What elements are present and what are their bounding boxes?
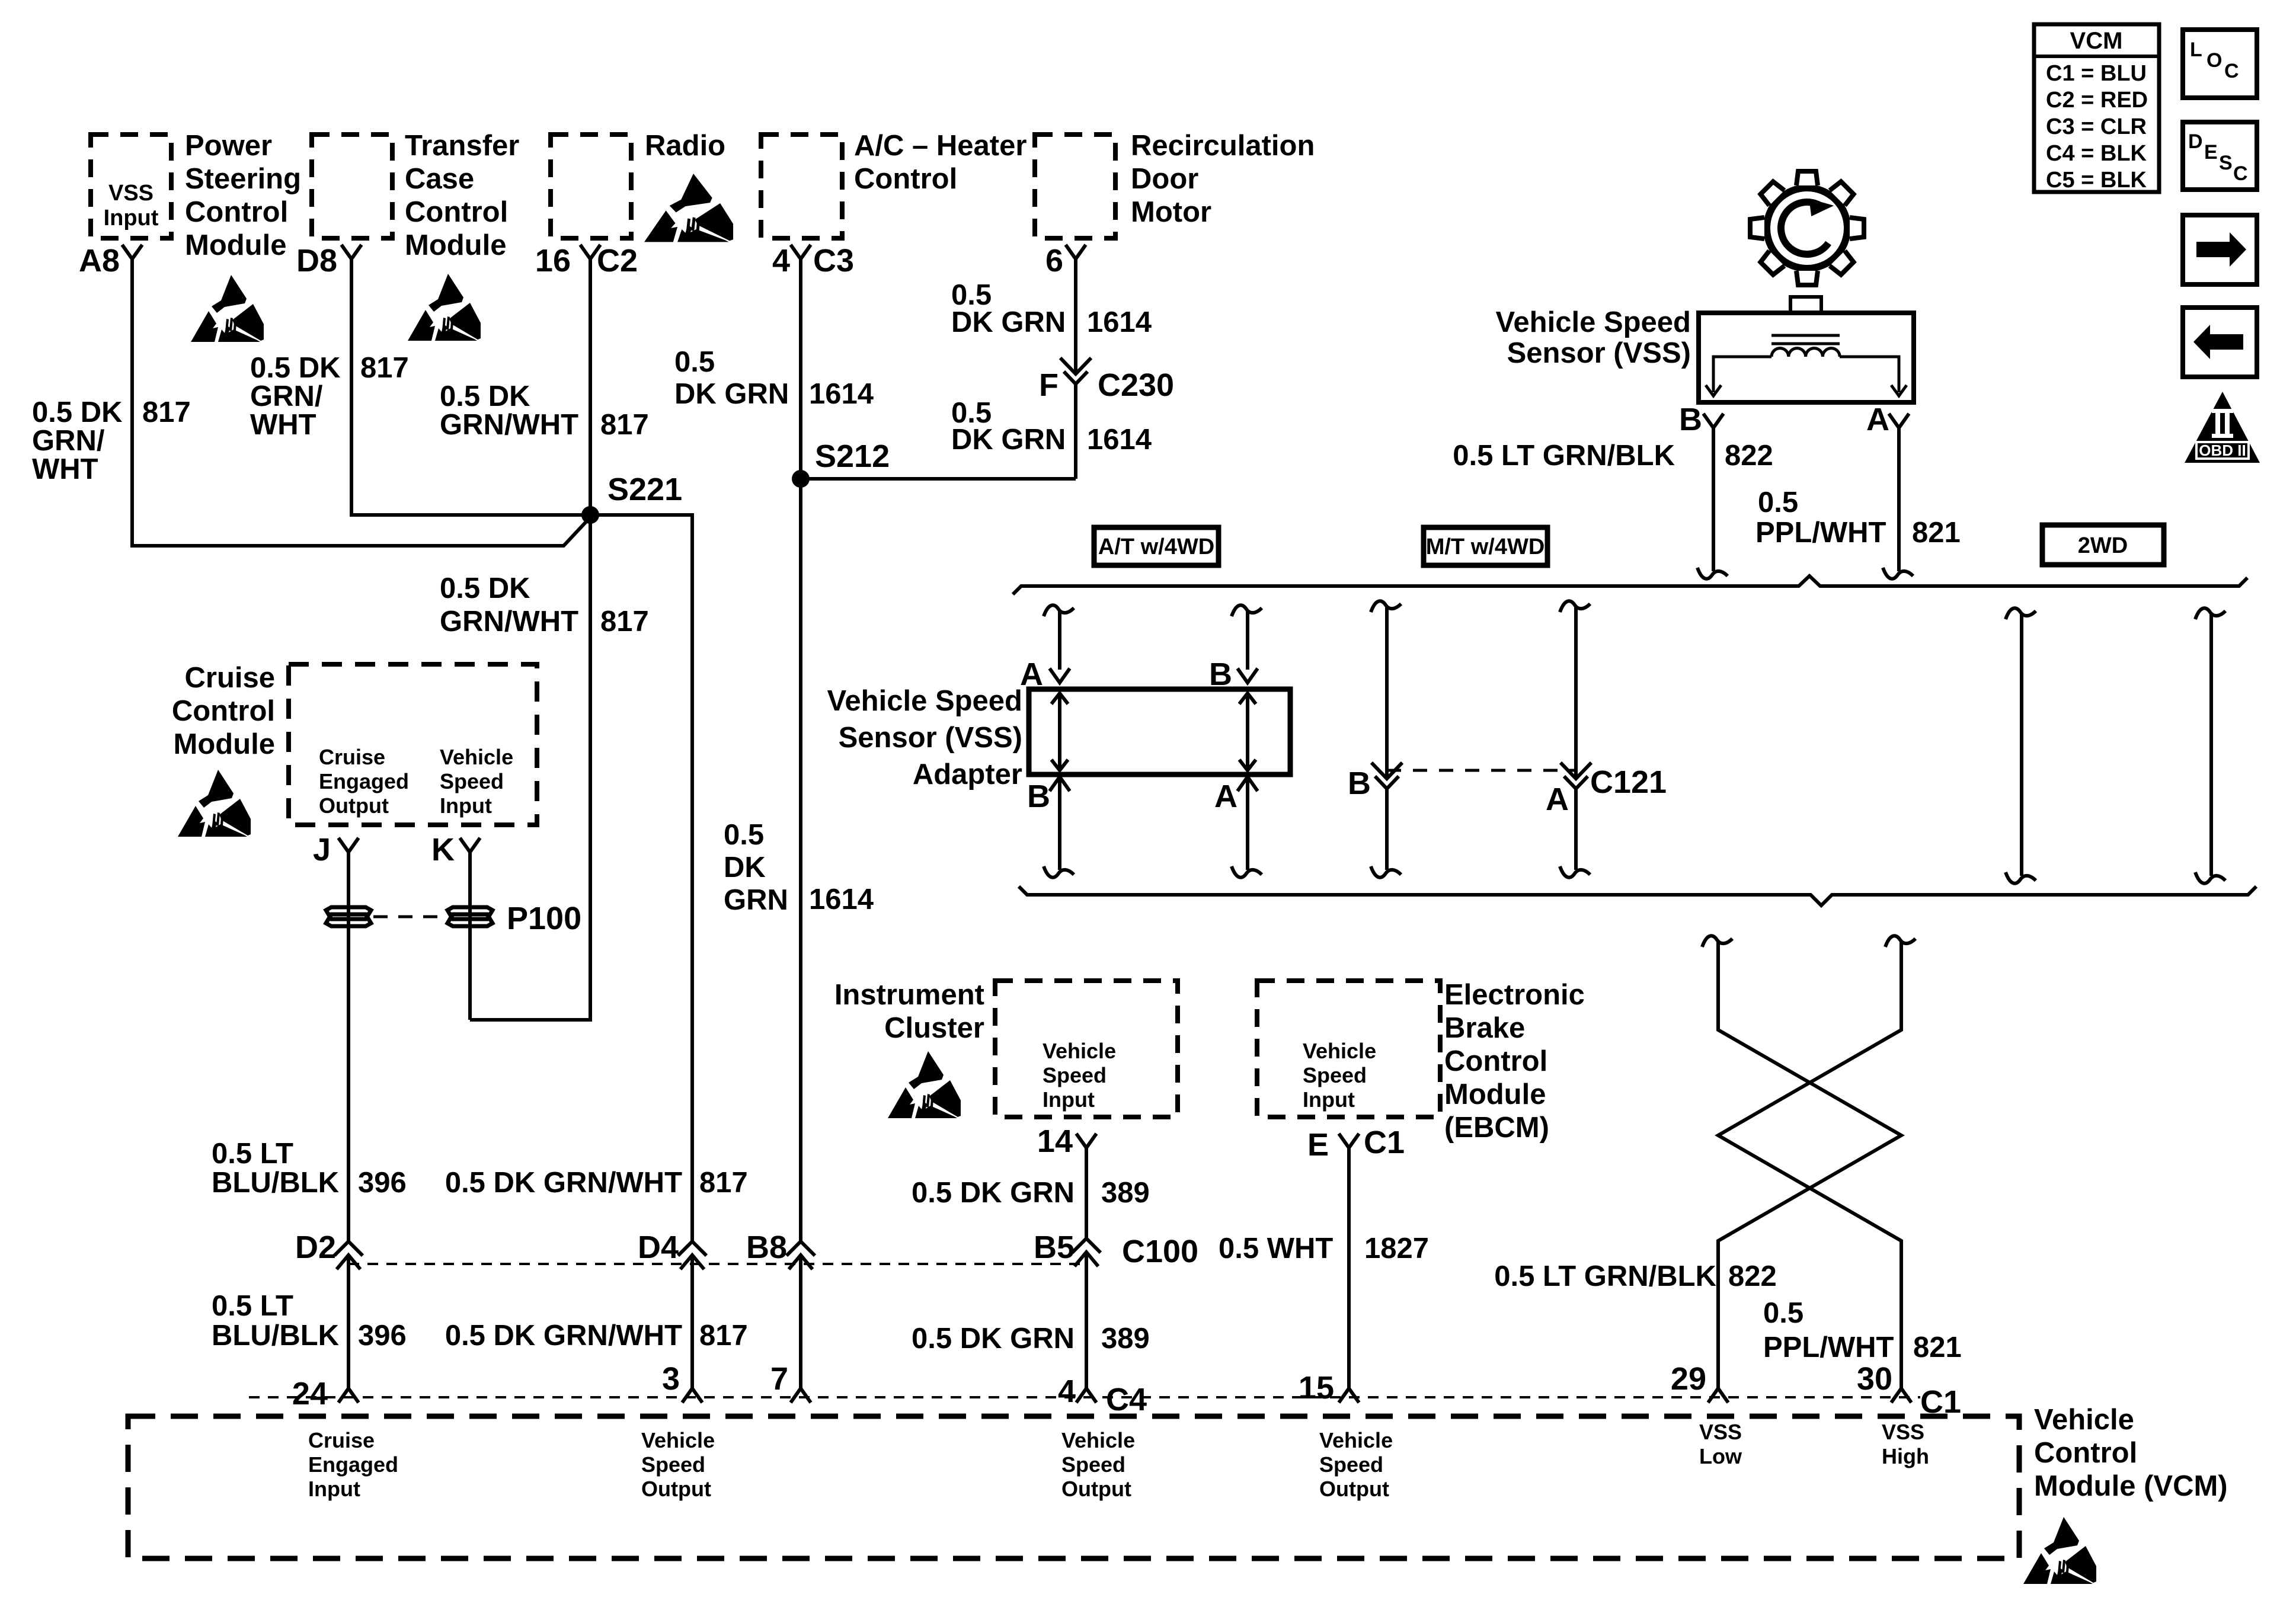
svg-text:B: B bbox=[1679, 402, 1702, 437]
svg-text:0.5 DK GRN: 0.5 DK GRN bbox=[912, 1323, 1075, 1355]
svg-text:DK: DK bbox=[724, 852, 766, 884]
svg-text:Input: Input bbox=[104, 206, 159, 231]
svg-text:817: 817 bbox=[600, 409, 649, 441]
svg-text:389: 389 bbox=[1101, 1177, 1150, 1209]
svg-text:Engaged: Engaged bbox=[308, 1452, 398, 1477]
svg-text:Speed: Speed bbox=[641, 1452, 705, 1477]
svg-text:OBD II: OBD II bbox=[2199, 441, 2246, 459]
svg-text:M/T w/4WD: M/T w/4WD bbox=[1426, 534, 1545, 559]
svg-text:Input: Input bbox=[308, 1477, 360, 1501]
svg-text:0.5: 0.5 bbox=[674, 346, 715, 378]
svg-text:Steering: Steering bbox=[185, 163, 301, 195]
svg-text:Vehicle Speed: Vehicle Speed bbox=[827, 685, 1022, 717]
svg-text:E: E bbox=[2204, 141, 2218, 164]
svg-text:Vehicle Speed: Vehicle Speed bbox=[1495, 306, 1691, 338]
svg-text:3: 3 bbox=[662, 1361, 680, 1397]
svg-text:0.5: 0.5 bbox=[1763, 1297, 1803, 1329]
svg-text:A: A bbox=[1214, 779, 1237, 814]
svg-text:Input: Input bbox=[440, 793, 492, 818]
svg-text:B5: B5 bbox=[1034, 1230, 1075, 1265]
svg-text:C: C bbox=[2233, 162, 2248, 185]
svg-text:Low: Low bbox=[1699, 1444, 1742, 1468]
svg-text:Cruise: Cruise bbox=[319, 745, 385, 769]
svg-text:Sensor (VSS): Sensor (VSS) bbox=[1507, 337, 1691, 369]
svg-text:396: 396 bbox=[358, 1167, 407, 1199]
svg-text:K: K bbox=[431, 832, 455, 868]
svg-text:S: S bbox=[2219, 152, 2233, 174]
svg-text:0.5 DK GRN/WHT: 0.5 DK GRN/WHT bbox=[445, 1320, 682, 1352]
svg-text:1614: 1614 bbox=[1087, 306, 1152, 338]
svg-text:J: J bbox=[313, 832, 331, 868]
svg-text:Vehicle: Vehicle bbox=[641, 1428, 715, 1452]
svg-text:0.5 LT GRN/BLK: 0.5 LT GRN/BLK bbox=[1494, 1260, 1716, 1292]
svg-text:817: 817 bbox=[360, 352, 409, 384]
svg-text:821: 821 bbox=[1913, 1331, 1962, 1363]
svg-text:Vehicle: Vehicle bbox=[2034, 1404, 2134, 1436]
svg-text:1614: 1614 bbox=[809, 378, 874, 410]
svg-text:D: D bbox=[2188, 130, 2203, 153]
svg-text:Input: Input bbox=[1043, 1087, 1095, 1112]
svg-text:Output: Output bbox=[319, 793, 389, 818]
svg-text:DK GRN: DK GRN bbox=[674, 378, 789, 410]
svg-text:14: 14 bbox=[1037, 1124, 1073, 1159]
svg-text:1614: 1614 bbox=[1087, 424, 1152, 456]
svg-text:Instrument: Instrument bbox=[834, 979, 984, 1011]
svg-text:Electronic: Electronic bbox=[1444, 979, 1585, 1011]
svg-text:1614: 1614 bbox=[809, 884, 874, 916]
svg-text:C2: C2 bbox=[597, 243, 638, 279]
svg-text:Vehicle: Vehicle bbox=[1043, 1039, 1116, 1063]
svg-text:F: F bbox=[1039, 367, 1059, 403]
svg-text:A: A bbox=[1020, 657, 1043, 692]
svg-text:0.5 WHT: 0.5 WHT bbox=[1219, 1233, 1333, 1265]
svg-text:Transfer: Transfer bbox=[405, 130, 519, 162]
svg-text:A: A bbox=[1546, 782, 1569, 817]
svg-text:S221: S221 bbox=[607, 472, 682, 507]
svg-text:396: 396 bbox=[358, 1320, 407, 1352]
svg-text:L: L bbox=[2190, 39, 2202, 61]
svg-text:C3 = CLR: C3 = CLR bbox=[2046, 114, 2147, 139]
svg-text:A/T w/4WD: A/T w/4WD bbox=[1098, 534, 1214, 559]
svg-text:Speed: Speed bbox=[440, 769, 504, 793]
svg-text:0.5 DK: 0.5 DK bbox=[32, 396, 123, 428]
svg-text:WHT: WHT bbox=[32, 453, 98, 485]
svg-text:389: 389 bbox=[1101, 1323, 1150, 1355]
svg-text:B: B bbox=[1348, 766, 1371, 801]
svg-text:PPL/WHT: PPL/WHT bbox=[1763, 1331, 1894, 1363]
svg-text:C: C bbox=[2224, 60, 2239, 82]
svg-text:GRN/WHT: GRN/WHT bbox=[440, 606, 578, 638]
svg-text:C1 = BLU: C1 = BLU bbox=[2046, 61, 2147, 86]
svg-text:Brake: Brake bbox=[1444, 1012, 1525, 1044]
svg-text:Door: Door bbox=[1131, 163, 1198, 195]
svg-text:0.5 LT: 0.5 LT bbox=[212, 1138, 293, 1170]
svg-text:Module: Module bbox=[174, 728, 275, 760]
svg-text:A8: A8 bbox=[79, 243, 120, 279]
svg-text:A: A bbox=[1866, 402, 1889, 437]
svg-text:C2 = RED: C2 = RED bbox=[2046, 88, 2148, 113]
svg-text:0.5 DK: 0.5 DK bbox=[250, 352, 341, 384]
svg-text:821: 821 bbox=[1912, 517, 1961, 549]
svg-text:Adapter: Adapter bbox=[913, 758, 1022, 790]
svg-text:Radio: Radio bbox=[645, 130, 725, 162]
svg-text:BLU/BLK: BLU/BLK bbox=[212, 1167, 339, 1199]
svg-text:817: 817 bbox=[142, 396, 191, 428]
svg-text:822: 822 bbox=[1725, 440, 1773, 472]
svg-text:4: 4 bbox=[1058, 1374, 1076, 1409]
svg-text:Control: Control bbox=[172, 695, 275, 727]
svg-text:Output: Output bbox=[1319, 1477, 1389, 1501]
svg-text:Output: Output bbox=[641, 1477, 711, 1501]
svg-text:15: 15 bbox=[1299, 1370, 1334, 1406]
svg-text:A/C – Heater: A/C – Heater bbox=[854, 130, 1027, 162]
svg-text:WHT: WHT bbox=[250, 409, 316, 441]
svg-text:Cluster: Cluster bbox=[884, 1012, 984, 1044]
svg-text:30: 30 bbox=[1857, 1361, 1892, 1397]
svg-text:C4 = BLK: C4 = BLK bbox=[2046, 141, 2147, 166]
svg-text:VCM: VCM bbox=[2070, 28, 2123, 54]
svg-text:817: 817 bbox=[699, 1320, 748, 1352]
svg-text:O: O bbox=[2207, 49, 2222, 72]
svg-text:E: E bbox=[1307, 1127, 1329, 1163]
svg-text:Vehicle: Vehicle bbox=[1303, 1039, 1376, 1063]
svg-text:VSS: VSS bbox=[1882, 1420, 1924, 1444]
svg-text:Input: Input bbox=[1303, 1087, 1355, 1112]
svg-text:Control: Control bbox=[2034, 1437, 2137, 1469]
svg-text:0.5 LT: 0.5 LT bbox=[212, 1290, 293, 1322]
svg-text:Cruise: Cruise bbox=[308, 1428, 375, 1452]
svg-text:0.5 DK: 0.5 DK bbox=[440, 572, 530, 604]
svg-text:Power: Power bbox=[185, 130, 272, 162]
svg-text:Vehicle: Vehicle bbox=[1061, 1428, 1135, 1452]
svg-text:Vehicle: Vehicle bbox=[440, 745, 513, 769]
svg-text:B8: B8 bbox=[746, 1230, 787, 1265]
svg-text:(EBCM): (EBCM) bbox=[1444, 1112, 1549, 1144]
svg-text:C100: C100 bbox=[1122, 1234, 1198, 1269]
svg-text:Case: Case bbox=[405, 163, 474, 195]
svg-text:0.5 DK GRN/WHT: 0.5 DK GRN/WHT bbox=[445, 1167, 682, 1199]
svg-text:2WD: 2WD bbox=[2078, 533, 2128, 558]
svg-text:GRN/WHT: GRN/WHT bbox=[440, 409, 578, 441]
svg-text:DK GRN: DK GRN bbox=[951, 424, 1066, 456]
svg-text:Engaged: Engaged bbox=[319, 769, 409, 793]
svg-text:Speed: Speed bbox=[1061, 1452, 1125, 1477]
svg-text:D8: D8 bbox=[296, 243, 337, 279]
svg-text:GRN/: GRN/ bbox=[32, 425, 105, 457]
svg-text:0.5 DK GRN: 0.5 DK GRN bbox=[912, 1177, 1075, 1209]
svg-text:Vehicle: Vehicle bbox=[1319, 1428, 1393, 1452]
svg-text:0.5: 0.5 bbox=[1758, 486, 1798, 518]
svg-text:GRN/: GRN/ bbox=[250, 380, 323, 412]
svg-text:6: 6 bbox=[1045, 243, 1063, 279]
svg-text:4: 4 bbox=[772, 243, 790, 279]
svg-text:Speed: Speed bbox=[1319, 1452, 1383, 1477]
svg-text:C3: C3 bbox=[813, 243, 854, 279]
svg-text:Sensor (VSS): Sensor (VSS) bbox=[839, 722, 1022, 754]
svg-text:16: 16 bbox=[535, 243, 571, 279]
svg-text:817: 817 bbox=[600, 606, 649, 638]
svg-text:C230: C230 bbox=[1098, 367, 1174, 403]
svg-text:C1: C1 bbox=[1364, 1125, 1405, 1160]
svg-text:VSS: VSS bbox=[108, 181, 154, 206]
svg-text:0.5 LT GRN/BLK: 0.5 LT GRN/BLK bbox=[1453, 440, 1675, 472]
svg-text:Speed: Speed bbox=[1043, 1063, 1107, 1087]
svg-text:S212: S212 bbox=[815, 438, 890, 474]
svg-text:Control: Control bbox=[854, 163, 957, 195]
svg-text:822: 822 bbox=[1728, 1260, 1777, 1292]
svg-text:VSS: VSS bbox=[1699, 1420, 1742, 1444]
svg-text:D4: D4 bbox=[638, 1230, 679, 1265]
svg-text:C5 = BLK: C5 = BLK bbox=[2046, 168, 2147, 193]
svg-text:D2: D2 bbox=[295, 1230, 336, 1265]
svg-text:7: 7 bbox=[770, 1361, 788, 1397]
svg-text:B: B bbox=[1209, 657, 1232, 692]
svg-text:High: High bbox=[1882, 1444, 1929, 1468]
svg-text:B: B bbox=[1027, 779, 1050, 814]
svg-text:BLU/BLK: BLU/BLK bbox=[212, 1320, 339, 1352]
svg-text:0.5: 0.5 bbox=[724, 819, 764, 851]
svg-text:GRN: GRN bbox=[724, 884, 788, 916]
svg-text:0.5 DK: 0.5 DK bbox=[440, 380, 530, 412]
svg-text:PPL/WHT: PPL/WHT bbox=[1755, 517, 1886, 549]
svg-text:C4: C4 bbox=[1106, 1382, 1147, 1417]
svg-text:Control: Control bbox=[185, 196, 288, 228]
svg-text:Module: Module bbox=[185, 229, 286, 261]
svg-text:24: 24 bbox=[292, 1376, 328, 1411]
svg-text:Control: Control bbox=[405, 196, 508, 228]
svg-text:DK GRN: DK GRN bbox=[951, 306, 1066, 338]
svg-text:Speed: Speed bbox=[1303, 1063, 1367, 1087]
svg-text:Control: Control bbox=[1444, 1045, 1547, 1077]
svg-text:Output: Output bbox=[1061, 1477, 1131, 1501]
svg-text:Module: Module bbox=[405, 229, 506, 261]
svg-text:29: 29 bbox=[1671, 1361, 1706, 1397]
svg-text:P100: P100 bbox=[507, 901, 581, 936]
svg-text:Recirculation: Recirculation bbox=[1131, 130, 1315, 162]
svg-text:817: 817 bbox=[699, 1167, 748, 1199]
svg-text:Module: Module bbox=[1444, 1078, 1546, 1110]
svg-text:1827: 1827 bbox=[1364, 1233, 1429, 1265]
svg-text:Cruise: Cruise bbox=[184, 662, 275, 694]
svg-text:Motor: Motor bbox=[1131, 196, 1211, 228]
svg-text:C121: C121 bbox=[1590, 764, 1667, 800]
svg-text:Module (VCM): Module (VCM) bbox=[2034, 1470, 2228, 1502]
